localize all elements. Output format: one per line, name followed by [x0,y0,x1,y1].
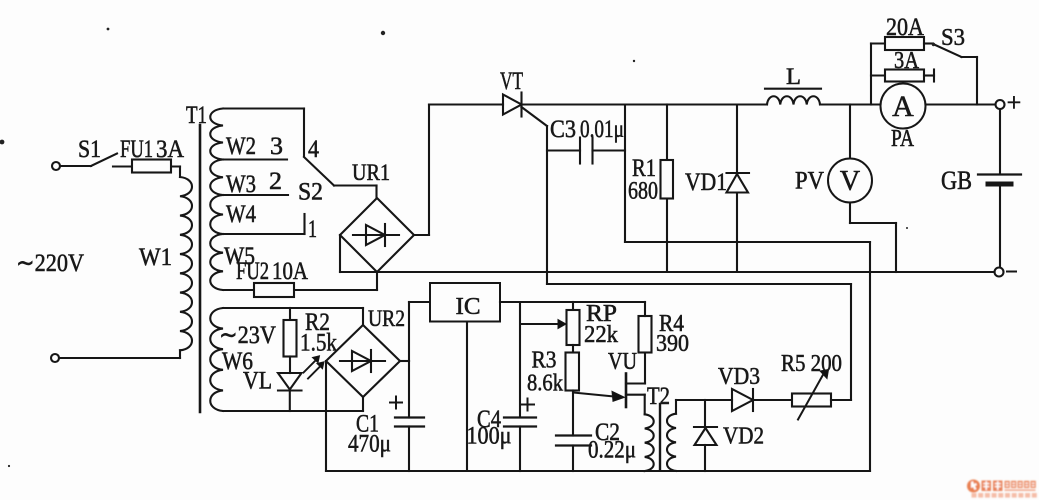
svg-text:S2: S2 [298,179,323,206]
svg-text:2: 2 [269,168,282,195]
svg-text:IC: IC [456,294,481,320]
svg-text:VL: VL [243,368,272,395]
svg-text:VU: VU [608,349,637,375]
svg-text:W1: W1 [139,244,172,271]
svg-text:3A: 3A [894,48,920,74]
svg-text:W4: W4 [226,201,256,228]
svg-text:W3: W3 [226,171,256,198]
svg-text:VD1: VD1 [685,169,727,196]
svg-text:∼23V: ∼23V [219,322,276,349]
svg-text:T2: T2 [647,383,670,410]
svg-text:20A: 20A [886,14,924,41]
svg-text:S1: S1 [78,136,101,163]
svg-text:T1: T1 [186,102,207,129]
svg-text:100μ: 100μ [467,423,512,450]
svg-text:3A: 3A [156,136,184,163]
svg-text:10A: 10A [272,258,308,285]
svg-text:∼220V: ∼220V [16,250,84,277]
svg-text:0.22μ: 0.22μ [588,437,636,464]
svg-text:VT: VT [500,68,523,95]
svg-text:UR1: UR1 [352,160,390,185]
svg-text:FU1: FU1 [120,136,153,163]
svg-text:3: 3 [270,133,283,160]
svg-text:R5 200: R5 200 [781,351,842,377]
svg-text:390: 390 [656,331,689,357]
svg-text:PA: PA [891,126,915,152]
svg-text:1.5k: 1.5k [300,330,337,357]
svg-text:W2: W2 [226,133,256,160]
svg-text:8.6k: 8.6k [527,371,563,397]
svg-text:470μ: 470μ [348,431,391,458]
svg-text:4: 4 [308,136,319,163]
svg-text:A: A [892,90,914,123]
svg-text:V: V [840,166,860,197]
svg-text:0.01μ: 0.01μ [580,116,624,143]
svg-text:UR2: UR2 [368,306,405,331]
svg-text:+: + [1007,88,1022,117]
svg-text:FU2: FU2 [236,258,269,285]
svg-text:VD3: VD3 [718,364,760,390]
svg-text:1: 1 [308,216,317,243]
svg-text:PV: PV [795,168,824,195]
svg-text:C3: C3 [550,116,576,143]
svg-text:VD2: VD2 [723,424,764,450]
svg-text:22k: 22k [584,322,618,348]
svg-text:GB: GB [941,166,972,195]
svg-text:S3: S3 [941,25,965,51]
svg-text:680: 680 [628,178,658,205]
svg-text:L: L [786,64,801,89]
